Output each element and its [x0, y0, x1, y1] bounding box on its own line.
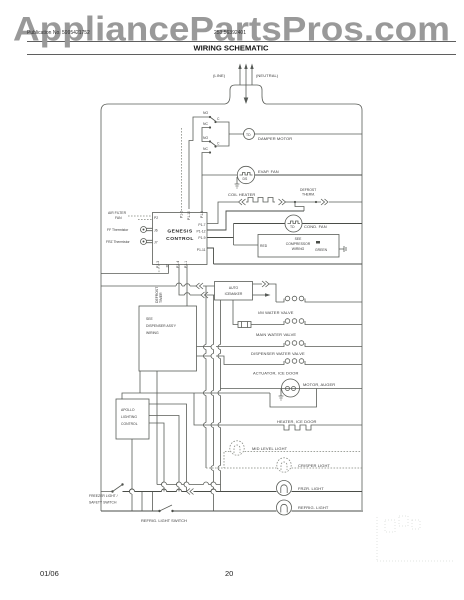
svg-text:DISPENSER ASS'Y: DISPENSER ASS'Y — [146, 324, 177, 328]
upper light feed row — [157, 371, 221, 485]
label (LINE) — [213, 73, 226, 78]
svg-text:FF Thermistor: FF Thermistor — [107, 228, 129, 232]
svg-text:SEE: SEE — [295, 237, 303, 241]
label COIL HEATER — [228, 192, 255, 197]
svg-text:P1-3: P1-3 — [156, 261, 160, 268]
svg-text:P1-2: P1-2 — [180, 211, 184, 218]
control pin labels right — [196, 223, 205, 252]
svg-text:01/06: 01/06 — [40, 569, 59, 578]
svg-text:J7: J7 — [154, 241, 158, 245]
wire W3 control to icemaker — [179, 265, 215, 296]
svg-text:DAMPER MOTOR: DAMPER MOTOR — [258, 136, 292, 141]
coil heater element R1 — [246, 198, 275, 203]
wire damper motor row — [254, 133, 362, 135]
label FF thermistor — [107, 228, 129, 232]
auger motor M4 — [282, 379, 300, 397]
svg-text:GREEN: GREEN — [315, 248, 328, 252]
freezer light lamp — [277, 481, 292, 496]
label vertical defrost — [155, 287, 163, 303]
main water valve solenoid L2 — [256, 319, 362, 325]
connector W3 — [201, 292, 208, 298]
svg-text:DISPENSER WATER VALVE: DISPENSER WATER VALVE — [251, 351, 305, 356]
connector defrost right — [316, 199, 328, 205]
icemaker assembly notch outline — [270, 389, 317, 408]
svg-text:P1-9: P1-9 — [198, 236, 205, 240]
label COND. FAN — [304, 224, 327, 229]
svg-text:NO: NO — [203, 111, 208, 115]
compressor green ground wire — [339, 246, 346, 252]
wire heater to defrost thermostat — [286, 201, 295, 203]
svg-text:LIGHTING: LIGHTING — [121, 415, 137, 419]
connector from coil heater (right) — [279, 199, 286, 205]
wire P1-6 riser — [201, 160, 203, 213]
label FRZ thermistor — [106, 240, 131, 244]
connector icemaker out — [253, 281, 270, 287]
svg-text:20: 20 — [225, 569, 233, 578]
svg-text:CRISPER LIGHT: CRISPER LIGHT — [298, 463, 330, 468]
freezer light safety switch — [101, 483, 124, 492]
svg-text:AUTO: AUTO — [229, 286, 239, 290]
label I/M WATER VALVE — [258, 310, 294, 315]
svg-text:SAFETY SWITCH: SAFETY SWITCH — [89, 501, 117, 505]
connector to coil heater (left) — [239, 199, 246, 205]
title WIRING SCHEMATIC — [194, 44, 269, 53]
footer date 01/06 — [40, 569, 59, 578]
label FREEZER LIGHT / SAFETY SWITCH — [89, 494, 118, 505]
wire icemaker bottom to main valve plug — [233, 300, 238, 325]
icemaker test arrow — [253, 293, 271, 297]
faint watermark logo bottom right — [377, 516, 455, 561]
power cord neutral prong arrow — [250, 64, 253, 86]
svg-text:FRZR. LIGHT: FRZR. LIGHT — [298, 486, 324, 491]
I/M water valve solenoid L1 — [276, 296, 362, 302]
wire P1-11 row — [207, 248, 362, 264]
label MOTOR AUGER — [303, 382, 335, 387]
auger motor feed wire — [221, 388, 363, 390]
svg-text:J6: J6 — [154, 229, 158, 233]
crisper light lamp (optional dashed) — [277, 458, 291, 472]
bottom rail with refrig light — [101, 510, 363, 512]
svg-text:P1-11: P1-11 — [197, 248, 206, 252]
wire icemaker to I/M valve — [269, 284, 276, 302]
svg-text:ICEMAKER: ICEMAKER — [225, 292, 243, 296]
wire P1-12 to thermostat — [207, 211, 304, 230]
svg-text:REFRIG. LIGHT SWITCH: REFRIG. LIGHT SWITCH — [141, 518, 187, 523]
main schematic outline (line/neutral rails) — [101, 104, 362, 511]
svg-text:SEE: SEE — [146, 317, 154, 321]
svg-text:COND. FAN: COND. FAN — [304, 224, 327, 229]
header rule lower — [27, 54, 456, 56]
svg-text:TD: TD — [246, 133, 251, 137]
svg-text:COMPRESSOR: COMPRESSOR — [286, 242, 311, 246]
apollo output O1 — [149, 404, 187, 492]
label FRZR. LIGHT — [298, 486, 324, 491]
main valve plug connector — [238, 322, 256, 328]
defrost timer switch SW1 (NO/NC) — [202, 111, 220, 142]
wire dashed from switch to P1-2 — [181, 128, 183, 213]
wire ice door heater to right edge — [313, 424, 362, 426]
dispenser assembly box — [139, 306, 197, 371]
dispenser wire to dispenser valve — [197, 346, 277, 348]
apollo output O3 — [149, 423, 164, 492]
genesis control box U1 — [153, 213, 208, 265]
wire freezer row to bottom rail dropper B — [152, 492, 154, 512]
defrost timer switch SW2 (NO/NC) — [202, 136, 220, 160]
svg-text:TIMER: TIMER — [159, 292, 163, 303]
svg-text:NC: NC — [203, 147, 208, 151]
svg-text:253.56392401: 253.56392401 — [214, 30, 246, 36]
svg-text:CONTROL: CONTROL — [166, 236, 194, 242]
control pin labels top — [180, 211, 205, 220]
label DAMPER MOTOR — [258, 136, 292, 141]
svg-text:NC: NC — [203, 122, 208, 126]
wire control pin to dispenser box — [186, 265, 188, 307]
evap fan ground — [235, 177, 240, 188]
svg-text:P2: P2 — [154, 216, 158, 220]
label CRISPER LIGHT — [298, 463, 330, 468]
wire P1-9 to condenser branch — [207, 237, 234, 239]
wire dashed control bottom pin to W1 — [158, 265, 160, 274]
svg-text:FREEZER LIGHT /: FREEZER LIGHT / — [89, 494, 118, 498]
svg-text:P1-12: P1-12 — [196, 230, 205, 234]
svg-text:WIRING: WIRING — [146, 331, 159, 335]
svg-text:C: C — [217, 142, 220, 146]
power cord bump — [225, 85, 266, 104]
switch common right rail to damper — [216, 122, 245, 146]
label REFRIG LIGHT SWITCH — [141, 518, 187, 523]
label MAIN WATER VALVE — [256, 332, 296, 337]
refrig light switch — [158, 505, 173, 512]
refrig light lamp — [277, 500, 292, 515]
wire ice door heater row left — [194, 393, 282, 425]
apollo output O2 — [149, 416, 179, 492]
wire W1 from left rail to control pin — [101, 265, 169, 274]
svg-text:MOTOR, AUGER: MOTOR, AUGER — [303, 382, 335, 387]
svg-text:APOLLO: APOLLO — [121, 408, 135, 412]
actuator ice door solenoid L4 — [276, 359, 362, 365]
cond fan motor — [285, 215, 302, 232]
label EVAP. FAN — [258, 169, 279, 174]
svg-text:EVAP. FAN: EVAP. FAN — [258, 169, 279, 174]
wire W2 line-rail to icemaker — [101, 283, 215, 286]
auger ground — [279, 389, 284, 401]
defrost thermostat S3 — [294, 201, 317, 211]
svg-text:P1-7: P1-7 — [198, 223, 205, 227]
svg-text:COIL HEATER: COIL HEATER — [228, 192, 255, 197]
apollo lighting control box — [116, 399, 149, 439]
wire dashed air filter fan to P2 — [128, 216, 153, 220]
svg-text:ACTUATOR, ICE DOOR: ACTUATOR, ICE DOOR — [253, 371, 298, 376]
mid level light lamp (optional dashed) — [230, 441, 244, 455]
apollo output O4 — [130, 439, 133, 511]
wire P1-7 to coil heater — [207, 202, 238, 224]
vertical drop wire v2 — [211, 295, 214, 511]
svg-text:I/M WATER VALVE: I/M WATER VALVE — [258, 310, 294, 315]
svg-text:Publication No. 5995421752: Publication No. 5995421752 — [27, 30, 90, 36]
svg-text:THERM.: THERM. — [302, 193, 315, 197]
model number text — [214, 30, 246, 36]
svg-text:WIRING: WIRING — [292, 247, 305, 251]
wire red compressor feed — [234, 244, 259, 246]
crisper light dashed row — [206, 467, 362, 469]
control pin labels bottom — [156, 261, 188, 268]
svg-text:NO: NO — [203, 136, 208, 140]
vertical drop wire v3 — [218, 300, 220, 492]
footer page number 20 — [225, 569, 233, 578]
svg-text:MAIN WATER VALVE: MAIN WATER VALVE — [256, 332, 296, 337]
ice door heater R2 — [282, 425, 313, 430]
freezer light row — [123, 489, 363, 492]
svg-text:MID LEVEL LIGHT: MID LEVEL LIGHT — [252, 446, 288, 451]
svg-text:CONTROL: CONTROL — [121, 422, 138, 426]
svg-text:(LINE): (LINE) — [213, 73, 226, 78]
label DISPENSER WATER VALVE — [251, 351, 305, 356]
connector W2 — [196, 283, 203, 289]
connector freezer light row — [187, 489, 194, 495]
vertical drop wire v1 — [204, 286, 207, 468]
mid level light dashed row — [224, 452, 362, 469]
svg-text:REFRIG. LIGHT: REFRIG. LIGHT — [298, 505, 329, 510]
label DEFROST THERM — [300, 188, 316, 197]
header rule upper — [27, 41, 456, 43]
power cord ground prong arrow (down to chassis) — [244, 64, 249, 105]
auger lower wire — [122, 393, 270, 400]
label REFRIG. LIGHT — [298, 505, 329, 510]
FRZ thermistor RT2 — [141, 239, 153, 245]
label ACTUATOR ICE DOOR — [253, 371, 298, 376]
label HEATER ICE DOOR — [277, 419, 317, 424]
svg-text:DEFROST: DEFROST — [300, 188, 316, 192]
label AIR FILTER FAN — [108, 211, 127, 220]
control pin labels left — [154, 216, 158, 245]
evap fan motor — [237, 166, 254, 183]
label MID LEVEL LIGHT — [252, 446, 288, 451]
svg-text:P1-10: P1-10 — [187, 211, 191, 220]
svg-text:GENESIS: GENESIS — [167, 229, 192, 235]
dispenser water valve solenoid L3 — [276, 341, 362, 347]
wire cond fan row — [234, 223, 363, 225]
publication number text — [27, 30, 90, 36]
label (NEUTRAL) — [256, 73, 279, 78]
wire defrost row to right edge — [329, 201, 362, 203]
svg-text:WIRING SCHEMATIC: WIRING SCHEMATIC — [194, 44, 269, 53]
wire condenser feed vertical — [233, 224, 235, 246]
compressor box SEE COMPRESSOR WIRING — [258, 235, 339, 258]
dispenser to apollo wires — [139, 371, 141, 393]
svg-text:C: C — [217, 117, 220, 121]
svg-text:DS: DS — [243, 177, 248, 181]
svg-text:FAN: FAN — [115, 216, 122, 220]
wire evap fan riser from P1-6 — [202, 166, 237, 175]
wire evap fan row to right edge — [255, 174, 362, 176]
watermark AppliancePartsPros.com — [13, 11, 450, 49]
svg-text:RED: RED — [260, 244, 268, 248]
power cord line prong arrow — [238, 64, 241, 86]
svg-text:(NEUTRAL): (NEUTRAL) — [256, 73, 279, 78]
svg-text:AIR FILTER: AIR FILTER — [108, 211, 127, 215]
dispenser wire to ice door actuator — [197, 356, 277, 365]
auto icemaker box — [215, 282, 253, 301]
wire freezer row to bottom rail dropper A — [141, 492, 143, 512]
damper motor M1 — [244, 129, 255, 140]
svg-text:TD: TD — [290, 225, 295, 229]
svg-text:HEATER, ICE DOOR: HEATER, ICE DOOR — [277, 419, 317, 424]
svg-text:FRZ Thermistor: FRZ Thermistor — [106, 240, 131, 244]
FF thermistor RT1 — [141, 227, 153, 233]
switch left feed rail — [189, 117, 210, 209]
